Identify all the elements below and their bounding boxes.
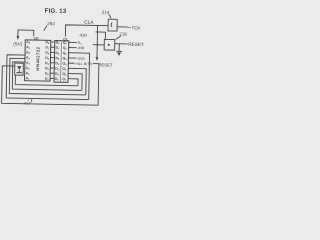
- svg-text:FIG. 13: FIG. 13: [45, 8, 67, 15]
- svg-text:H&L BITS: H&L BITS: [75, 62, 93, 66]
- svg-text:CLA: CLA: [84, 20, 94, 26]
- svg-text:JNB: JNB: [78, 46, 85, 50]
- svg-text:214: 214: [102, 10, 110, 15]
- svg-text:RESET: RESET: [98, 62, 113, 67]
- svg-text:RESET: RESET: [128, 42, 144, 47]
- svg-text:DVD: DVD: [77, 57, 85, 61]
- svg-text:HN462732: HN462732: [35, 46, 40, 70]
- svg-text:-430: -430: [78, 33, 87, 38]
- svg-text:TCK: TCK: [132, 25, 141, 30]
- svg-text:250: 250: [47, 21, 55, 26]
- svg-text:(5V): (5V): [13, 41, 22, 46]
- svg-text:A17: A17: [24, 102, 31, 106]
